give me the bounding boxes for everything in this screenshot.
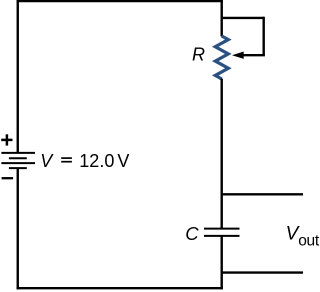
wire bottom [17, 287, 223, 289]
svg-text:C: C [185, 223, 199, 244]
battery V1 short plate 2 [9, 167, 27, 169]
capacitor C top plate [204, 228, 240, 230]
wire right lower [220, 236, 222, 290]
wire right middle [220, 79, 222, 229]
battery V1 short plate 1 [9, 157, 27, 159]
svg-text:V12.0V: V12.0V [40, 151, 129, 171]
wire left upper [17, 0, 19, 153]
wire left lower [17, 168, 19, 289]
wiper arrowhead [232, 52, 244, 59]
capacitor C bottom plate [204, 235, 240, 237]
output wire top [221, 193, 304, 195]
svg-text:out: out [298, 232, 319, 249]
battery V1 minus label [2, 177, 14, 179]
resistor R zigzag [215, 36, 228, 79]
battery V1 plus label [1, 134, 12, 145]
battery V1 long plate 1 [1, 152, 35, 154]
wiper branch wire top [221, 17, 264, 19]
wire top [17, 0, 223, 2]
wiper branch wire right [263, 17, 265, 56]
wiper arrow shaft [243, 54, 265, 56]
battery V1 long plate 2 [1, 162, 35, 164]
battery V1 value equals sign [61, 158, 72, 162]
svg-text:R: R [192, 45, 205, 65]
output wire bottom [221, 271, 304, 273]
wire right upper [220, 0, 222, 36]
